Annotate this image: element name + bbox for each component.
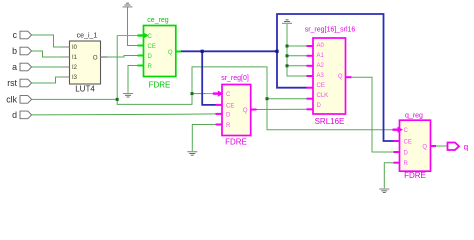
svg-text:I2: I2 — [72, 65, 78, 71]
svg-text:Q: Q — [422, 145, 427, 151]
svg-text:R: R — [226, 123, 231, 129]
svg-text:A0: A0 — [317, 43, 325, 49]
junction clk at sr_reg branch — [191, 92, 194, 95]
q_reg pin stub R — [394, 162, 400, 164]
FDRE q_reg — [400, 113, 431, 181]
wire b to LUT4 I1 — [32, 51, 62, 57]
svg-text:clk: clk — [6, 94, 17, 104]
input port d — [12, 110, 32, 120]
svg-text:q: q — [464, 141, 469, 151]
sr_reg[0] pin stub R — [216, 124, 223, 126]
SRL16E pin stub A1 — [307, 55, 314, 57]
wire rst to LUT4 I3 — [32, 77, 62, 83]
ce_reg pin stub R — [138, 65, 144, 67]
svg-text:A2: A2 — [317, 63, 325, 69]
junction feeder A0 — [286, 45, 289, 48]
junction blue at sr_reg CE branch — [201, 50, 204, 53]
svg-text:C: C — [226, 92, 231, 98]
q_reg pin stub Q — [431, 145, 437, 147]
svg-text:C: C — [404, 128, 409, 134]
output port q — [448, 141, 469, 151]
SRL16E pin stub A3 — [307, 75, 314, 77]
wire clk branch to sr_reg[0] C — [192, 93, 206, 95]
SRL16E pin stub A0 — [307, 45, 314, 47]
svg-text:FDRE: FDRE — [149, 81, 171, 90]
ce_reg pin stub C (clock arrow) — [138, 32, 149, 38]
wire SRL16E Q to q_reg D — [352, 77, 394, 152]
junction feeder A2 — [286, 64, 289, 67]
svg-text:d: d — [12, 110, 17, 120]
wire clk trunk — [32, 67, 307, 105]
ground G3 (below sr_reg[0]) — [187, 152, 197, 156]
ground G4 (inverted, feeds SRL16E A0-A3) — [282, 20, 292, 24]
net ce top loop to q_reg CE — [277, 14, 394, 141]
LUT4 pin stub I1 — [62, 56, 70, 58]
svg-text:D: D — [404, 151, 409, 157]
ce_reg pin stub Q — [176, 51, 181, 53]
input port rst — [7, 78, 31, 88]
svg-text:D: D — [226, 112, 231, 118]
SRL16E pin stub Q — [346, 76, 352, 78]
sr_reg[0] pin stub CE — [216, 104, 223, 106]
junction feeder A1 — [286, 54, 289, 57]
SRL16E pin stub A2 — [307, 65, 314, 67]
input port b — [12, 46, 32, 56]
svg-text:LUT4: LUT4 — [75, 85, 95, 94]
svg-text:A1: A1 — [317, 53, 325, 59]
LUT4 ce_i_1 — [70, 33, 101, 94]
svg-text:Q: Q — [168, 50, 173, 56]
svg-text:ce_i_1: ce_i_1 — [77, 33, 98, 40]
wire feeder branch A2 — [287, 65, 307, 67]
svg-text:a: a — [12, 62, 17, 72]
svg-text:I3: I3 — [72, 75, 78, 81]
wire ground G1 to ce_reg CE — [128, 8, 139, 46]
input port c — [13, 30, 32, 40]
svg-text:q_reg: q_reg — [405, 113, 423, 120]
wire ground G4 feeder to SRL16E A pins — [287, 24, 307, 76]
svg-text:Q: Q — [338, 74, 343, 80]
q_reg pin labels — [404, 128, 428, 167]
svg-text:b: b — [12, 46, 17, 56]
input port clk — [6, 94, 31, 104]
svg-text:O: O — [93, 55, 98, 61]
wire sr_reg[0] R to ground G3 — [192, 125, 216, 152]
svg-text:A3: A3 — [317, 73, 325, 79]
sr_reg[0] pin labels — [226, 92, 248, 129]
wire d to sr_reg[0] D — [32, 114, 216, 115]
sr_reg[0] pin stub D — [216, 113, 223, 115]
net ce branch down to SRL16E CE — [277, 51, 307, 87]
wire clk branch to q_reg C — [267, 99, 393, 130]
wire clk branch to ce_reg C — [116, 36, 118, 100]
svg-text:D: D — [317, 103, 322, 109]
SRL16E pin labels — [317, 43, 343, 109]
junction blue at SRL16E CE branch — [275, 50, 278, 53]
ground G5 (below q_reg) — [379, 189, 389, 193]
svg-text:CE: CE — [226, 103, 234, 109]
svg-text:CE: CE — [404, 140, 412, 146]
LUT4 pin stub I0 — [62, 46, 70, 48]
sr_reg[0] pin stub Q — [251, 109, 257, 111]
ce_reg pin labels — [148, 34, 173, 70]
wire feeder branch A1 — [287, 55, 307, 57]
wire a to LUT4 I2 — [32, 66, 62, 68]
svg-text:sr_reg[0]: sr_reg[0] — [221, 75, 249, 82]
wire feeder branch A0 — [287, 45, 307, 47]
wire ce_reg R to ground G2 — [128, 66, 138, 93]
SRL16E pin stub D — [307, 108, 314, 110]
LUT4 pin stub I3 — [62, 76, 70, 78]
SRL16E pin stub CLK — [307, 98, 314, 100]
svg-text:ce_reg: ce_reg — [147, 17, 169, 24]
wire c to LUT4 I0 — [32, 35, 62, 47]
svg-text:CLK: CLK — [317, 93, 329, 99]
q_reg pin stub D — [394, 151, 400, 153]
input port a — [12, 62, 32, 72]
svg-text:FDRE: FDRE — [404, 171, 426, 180]
svg-text:SRL16E: SRL16E — [315, 117, 345, 126]
q_reg pin stub C (clock arrow) — [393, 127, 404, 133]
svg-text:CE: CE — [148, 44, 156, 50]
q_reg pin stub CE — [394, 140, 400, 142]
net ce (blue) from ce_reg Q — [181, 50, 277, 52]
svg-text:rst: rst — [7, 78, 17, 88]
svg-text:I0: I0 — [72, 45, 78, 51]
svg-text:C: C — [148, 34, 153, 40]
sr_reg[0] pin stub C (clock arrow) — [213, 91, 223, 97]
svg-text:R: R — [148, 64, 153, 70]
svg-text:c: c — [13, 30, 18, 40]
junction clk at q_reg branch — [266, 97, 269, 100]
svg-text:Q: Q — [243, 108, 248, 114]
svg-text:R: R — [404, 161, 409, 167]
ground G2 (below ce_reg) — [123, 94, 133, 98]
svg-text:CE: CE — [317, 83, 325, 89]
wire sr_reg[0] Q to SRL16E D — [257, 108, 307, 110]
svg-text:D: D — [148, 54, 153, 60]
FDRE sr_reg[0] — [221, 75, 251, 147]
ce_reg pin stub CE — [138, 45, 144, 47]
ground G1 (inverted, feeds ce_reg CE) — [123, 3, 133, 7]
FDRE ce_reg — [144, 17, 176, 90]
wire q_reg Q to output port q — [436, 145, 448, 147]
wire q_reg R to ground G5 — [384, 163, 393, 189]
SRL16E sr_reg[16]_srl16 — [305, 27, 356, 127]
LUT4 pin stub I2 — [62, 66, 70, 68]
svg-text:I1: I1 — [72, 55, 78, 61]
net ce branch down to sr_reg[0] CE — [202, 51, 216, 105]
wire LUT4 O to ce_reg D — [108, 56, 138, 58]
SRL16E pin stub CE — [307, 87, 314, 89]
svg-text:sr_reg[16]_srl16: sr_reg[16]_srl16 — [305, 27, 356, 34]
LUT4 pin labels — [72, 45, 98, 81]
junction clk at ce_reg branch — [116, 98, 119, 101]
LUT4 pin stub O — [101, 56, 108, 58]
ce_reg pin stub D — [138, 55, 144, 57]
svg-text:FDRE: FDRE — [225, 138, 247, 147]
